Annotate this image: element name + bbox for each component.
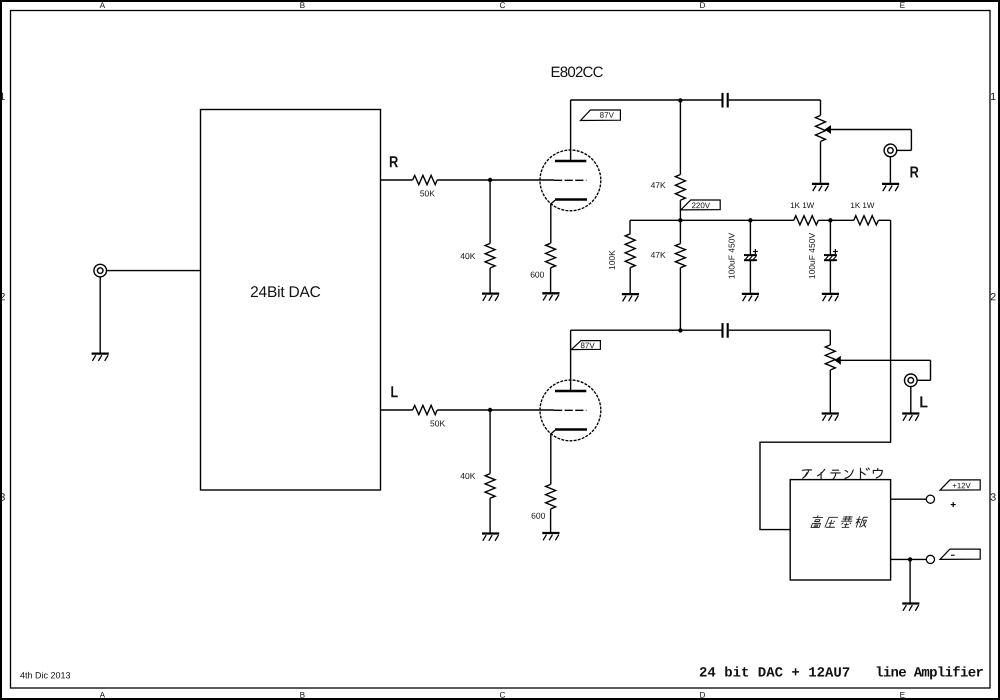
svg-text:+12V: +12V xyxy=(952,481,971,490)
svg-text:3: 3 xyxy=(0,492,5,504)
svg-text:line Amplifier: line Amplifier xyxy=(875,666,983,682)
svg-text:1: 1 xyxy=(990,91,996,103)
svg-text:D: D xyxy=(699,1,705,10)
svg-text:1: 1 xyxy=(0,91,5,103)
svg-text:24Bit DAC: 24Bit DAC xyxy=(250,284,321,301)
svg-text:3: 3 xyxy=(990,492,996,504)
svg-text:L: L xyxy=(919,394,928,411)
svg-text:A: A xyxy=(100,1,106,10)
svg-text:E: E xyxy=(900,1,906,10)
svg-text:1K 1W: 1K 1W xyxy=(850,201,874,210)
svg-text:100uF 450V: 100uF 450V xyxy=(726,233,736,280)
svg-text:E: E xyxy=(900,691,906,700)
svg-text:1K 1W: 1K 1W xyxy=(790,201,814,210)
svg-text:4th Dic 2013: 4th Dic 2013 xyxy=(20,670,71,680)
svg-text:50K: 50K xyxy=(430,418,445,428)
svg-text:2: 2 xyxy=(990,291,996,303)
svg-text:87V: 87V xyxy=(600,111,615,120)
svg-text:47K: 47K xyxy=(651,250,666,260)
svg-text:E802CC: E802CC xyxy=(550,64,603,81)
svg-text:87V: 87V xyxy=(580,341,595,350)
svg-text:C: C xyxy=(499,691,505,700)
svg-text:L: L xyxy=(390,384,398,401)
svg-text:B: B xyxy=(300,691,306,700)
svg-text:D: D xyxy=(699,691,705,700)
svg-text:100uF 450V: 100uF 450V xyxy=(807,233,817,280)
svg-text:220V: 220V xyxy=(691,201,710,210)
svg-text:R: R xyxy=(910,165,920,182)
svg-text:24 bit DAC + 12AU7: 24 bit DAC + 12AU7 xyxy=(699,666,850,682)
svg-text:C: C xyxy=(499,1,505,10)
svg-text:R: R xyxy=(389,154,399,171)
svg-text:600: 600 xyxy=(531,511,545,521)
svg-text:40K: 40K xyxy=(460,251,475,261)
svg-text:50K: 50K xyxy=(420,188,435,198)
svg-text:47K: 47K xyxy=(651,180,666,190)
svg-text:100K: 100K xyxy=(607,250,617,270)
svg-text:600: 600 xyxy=(530,269,544,279)
svg-text:40K: 40K xyxy=(460,471,475,481)
svg-text:2: 2 xyxy=(0,291,5,303)
svg-text:B: B xyxy=(300,1,306,10)
svg-text:A: A xyxy=(100,691,106,700)
